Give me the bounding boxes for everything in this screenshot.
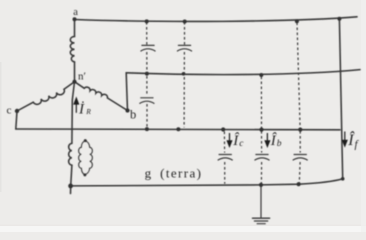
svg-text:İ: İ	[78, 102, 85, 118]
svg-text:a: a	[73, 7, 78, 18]
svg-text:b: b	[130, 108, 136, 122]
svg-text:g (terra): g (terra)	[145, 165, 203, 180]
svg-text:n′: n′	[78, 70, 86, 82]
svg-text:Î: Î	[232, 132, 239, 149]
svg-text:R: R	[85, 107, 91, 116]
svg-text:Î: Î	[270, 132, 277, 149]
svg-text:b: b	[277, 139, 282, 149]
svg-text:c: c	[7, 105, 12, 117]
